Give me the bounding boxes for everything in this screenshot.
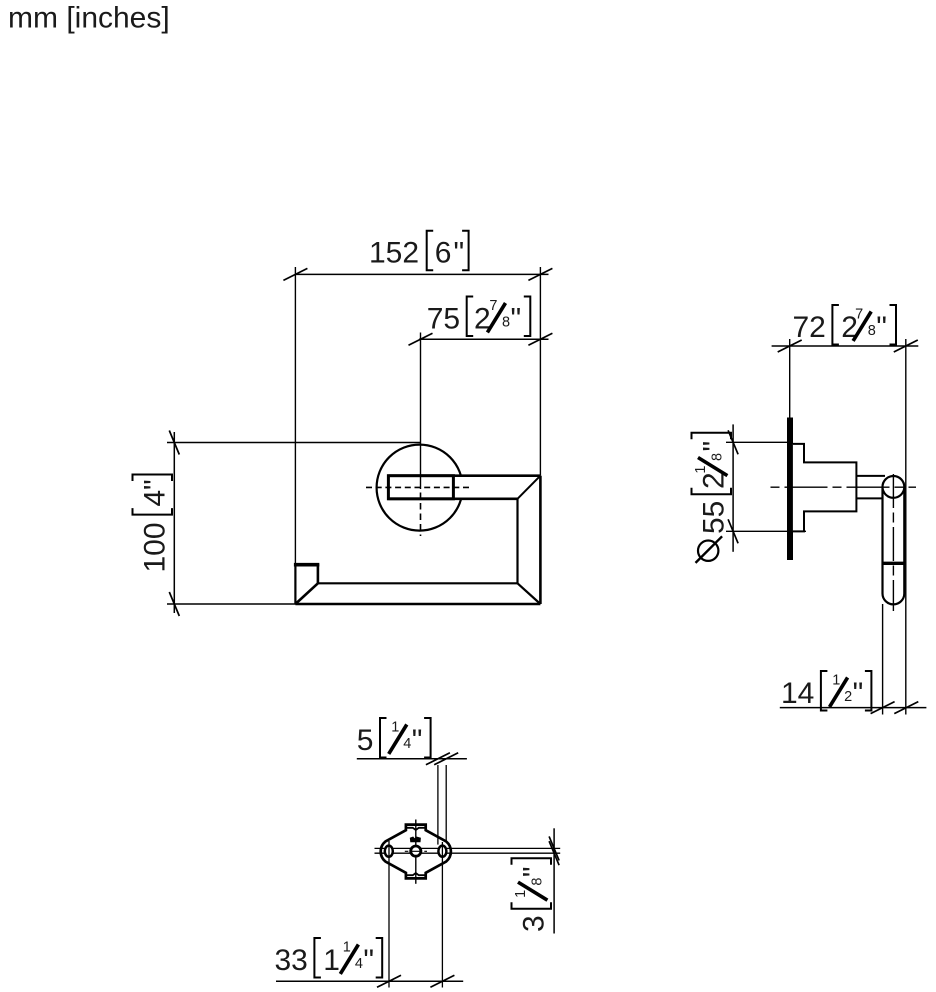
wall plate bar (filled): [787, 418, 793, 561]
dimension line 100: [173, 432, 175, 613]
svg-text:": ": [454, 237, 465, 270]
hook diagonal: [295, 583, 318, 604]
side arm top edge: [856, 475, 885, 477]
tick dia55 bottom: [728, 519, 738, 543]
mounting plate outline: [381, 825, 451, 879]
dimension line 14: [780, 707, 927, 709]
extension line 100 bottom: [167, 603, 296, 605]
svg-text:": ": [412, 724, 423, 757]
dimension line 72: [772, 345, 919, 347]
svg-text:2: 2: [844, 689, 852, 705]
svg-text:3: 3: [518, 915, 551, 932]
svg-text:75: 75: [427, 303, 460, 336]
tick 75 left: [409, 333, 433, 345]
horizontal centerline dash-dot: [771, 486, 917, 488]
hook top edge (thick): [294, 563, 319, 567]
extension line left (152): [294, 267, 296, 564]
tick dia55 top: [728, 430, 738, 454]
right bar outer edge: [539, 476, 542, 604]
center hole horizontal center-mark: [405, 850, 427, 852]
svg-text:1: 1: [343, 940, 351, 956]
label 72 [2 7/8"]: [793, 305, 897, 345]
hook left edge: [294, 564, 296, 605]
bottom tab notch line: [407, 873, 425, 875]
extension line center (75): [420, 333, 422, 490]
dimension line 75: [419, 338, 549, 340]
svg-text:1: 1: [323, 944, 340, 977]
svg-text:4: 4: [355, 956, 363, 972]
extension line 100 top: [167, 442, 420, 444]
extension dia55 top: [726, 441, 793, 443]
label 152 [6"]: [369, 231, 469, 271]
svg-text:14: 14: [781, 677, 814, 710]
tick 3 upper: [549, 836, 559, 860]
3-dim reference line lower: [375, 852, 561, 854]
svg-text:": ": [139, 479, 172, 490]
tick 14 left: [871, 702, 895, 714]
svg-text:": ": [363, 944, 374, 977]
svg-text:33: 33: [275, 944, 308, 977]
label 100 [4"] rotated: [133, 475, 173, 573]
tick 5 left: [426, 753, 450, 765]
svg-text:72: 72: [793, 311, 826, 344]
tick 33 right: [430, 975, 454, 987]
svg-text:": ": [698, 441, 731, 452]
top-right miter diagonal: [518, 477, 540, 499]
arm bottom edge: [388, 497, 517, 500]
dimension line 5: [357, 758, 467, 760]
svg-text:7: 7: [489, 298, 497, 314]
arm top edge: [388, 474, 540, 477]
center hole: [411, 846, 421, 856]
svg-text:mm [inches]: mm [inches]: [8, 2, 170, 35]
extension 14 left: [882, 604, 884, 715]
side arm bottom edge: [856, 497, 885, 499]
tick 152 right: [528, 268, 552, 280]
tick 33 left: [377, 975, 401, 987]
extension 72/14 right (long): [905, 339, 907, 715]
black mark above center hole: [410, 837, 421, 843]
sleeve rectangle (thick): [388, 476, 453, 499]
tick 5 right: [434, 753, 458, 765]
extension 72 left: [789, 339, 791, 418]
label dia 55 [2 1/8"] rotated: [692, 433, 732, 563]
label 3 [1/8"] rotated: [512, 858, 552, 932]
extension dia55 bottom: [726, 530, 806, 532]
label 33 [1 1/4"]: [275, 938, 383, 978]
svg-text:4: 4: [403, 736, 411, 752]
dimension line 152: [295, 273, 548, 275]
svg-text:1: 1: [391, 720, 399, 736]
left screw hole: [385, 846, 393, 857]
tick 100 top: [169, 431, 179, 455]
extension 5 right: [445, 765, 447, 841]
extension 5 left: [437, 765, 439, 845]
holder body white mask (front view ring): [295, 476, 540, 604]
plate vertical centerline: [415, 820, 417, 884]
tick 14 right: [894, 702, 918, 714]
svg-text:6: 6: [435, 237, 452, 270]
svg-text:1: 1: [513, 890, 529, 898]
svg-text:5: 5: [357, 724, 374, 757]
label 5 [1/4"]: [357, 718, 431, 758]
svg-text:": ": [511, 303, 522, 336]
bottom bar outer edge: [295, 603, 540, 606]
svg-text:100: 100: [139, 522, 172, 572]
right bar inner edge: [516, 499, 518, 584]
svg-text:152: 152: [369, 237, 419, 270]
dimension line 3: [553, 828, 555, 933]
label 14 [1/2"]: [781, 671, 871, 711]
svg-text:7: 7: [855, 307, 863, 323]
tick 3 lower: [549, 841, 559, 865]
bottom-right miter diagonal: [518, 583, 541, 604]
vertical dashed centerline: [420, 493, 422, 537]
top tab notch line: [407, 828, 425, 830]
joint line (thick): [883, 562, 905, 565]
svg-text:8: 8: [530, 878, 546, 886]
tick 100 bottom: [169, 592, 179, 616]
svg-text:8: 8: [868, 323, 876, 339]
svg-text:1: 1: [693, 466, 709, 474]
horizontal dashed centerline: [366, 486, 472, 488]
svg-text:": ": [853, 677, 864, 710]
vertical centerline dash-dot: [892, 474, 894, 611]
tick 152 left: [283, 268, 307, 280]
tick 72 left: [778, 340, 802, 352]
svg-text:": ": [876, 311, 887, 344]
dimension line dia55: [732, 424, 734, 551]
bottom bar inner edge: [318, 582, 518, 584]
hanger bar with round cap: [883, 488, 905, 604]
tick 72 right: [894, 340, 918, 352]
svg-text:8: 8: [710, 453, 726, 461]
pivot circle: [883, 476, 905, 498]
3-dim reference line upper: [375, 847, 561, 849]
left hole vertical mark / extension to 33: [388, 841, 390, 988]
wall flange circle (front view): [377, 445, 463, 531]
right hole vertical mark / extension to 33: [441, 842, 443, 988]
hook right edge: [317, 564, 320, 584]
label 75 [2 7/8"]: [427, 297, 531, 337]
svg-text:8: 8: [502, 315, 510, 331]
extension line right (152/75): [539, 267, 541, 476]
svg-text:55: 55: [698, 501, 731, 534]
right screw hole: [438, 846, 446, 857]
bracket stepped profile: [793, 444, 857, 532]
svg-text:1: 1: [832, 673, 840, 689]
svg-text:": ": [518, 866, 551, 877]
tick 75 right: [528, 333, 552, 345]
svg-text:4: 4: [139, 490, 172, 507]
dimension line 33: [276, 980, 463, 982]
